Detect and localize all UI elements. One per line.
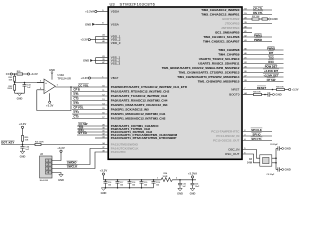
svg-text:CC: CC [6, 72, 10, 76]
wire op-amp pin 3 input [37, 82, 44, 84]
svg-text:GND: GND [85, 22, 91, 26]
capacitor C36 [192, 180, 194, 184]
ground GND below C34 [20, 151, 24, 154]
svg-text:TIM4_CH4/PB9: TIM4_CH4/PB9 [218, 53, 240, 57]
IC U3 STM32F103C8T6 body [108, 7, 242, 159]
svg-text:1: 1 [157, 177, 159, 179]
svg-text:BOOT0: BOOT0 [229, 93, 240, 97]
svg-text:TIM1_CH1N/USART3_CTS/SPI2_SCK/: TIM1_CH1N/USART3_CTS/SPI2_SCK/PB13 [179, 71, 240, 75]
wire feedback loop [37, 87, 71, 111]
svg-text:GND: GND [271, 17, 277, 21]
svg-text:PC15-OSC32_OUT: PC15-OSC32_OUT [213, 139, 240, 143]
wire divider node [14, 81, 16, 82]
svg-text:TIM1_CH3N/SPI2_MOSI/PB15: TIM1_CH3N/SPI2_MOSI/PB15 [198, 80, 240, 84]
wire net TX1 to U3 [77, 128, 108, 130]
ground GND at C8 [282, 148, 284, 150]
resistor R34 100R ferrite [160, 178, 175, 182]
capacitor C35 [179, 180, 181, 184]
svg-text:+3.3V: +3.3V [81, 76, 89, 80]
wire PB0 net CP CTL [242, 9, 272, 11]
wire VBAT pin 1 [91, 77, 109, 79]
svg-text:200K: 200K [7, 88, 12, 90]
svg-text:PA1/USART2_RTS/ADC12_IN1/TIM2_: PA1/USART2_RTS/ADC12_IN1/TIM2_CH2 [111, 90, 170, 94]
wire PA12 stub [95, 137, 108, 139]
wire J2 pin2 SWDIO to U3 PA14 [52, 149, 108, 165]
wire DOT_KEY to U3 PA13 [1, 144, 35, 146]
svg-text:C8 20pF: C8 20pF [270, 144, 279, 146]
wire net CP B to U3 [72, 91, 108, 93]
svg-text:1: 1 [57, 85, 59, 87]
svg-text:2: 2 [176, 177, 178, 179]
wire VSS feed [93, 60, 96, 62]
svg-text:TIM4_CH3/PB8: TIM4_CH3/PB8 [218, 48, 240, 52]
svg-text:104: 104 [108, 183, 111, 186]
wire VDD_2 stub [96, 39, 109, 41]
svg-text:RESET: RESET [257, 86, 267, 90]
svg-text:TIM1_CH2N/USART3_RTS/SPI2_MISO: TIM1_CH2N/USART3_RTS/SPI2_MISO/PB14 [177, 75, 240, 79]
svg-text:+3.3VA: +3.3VA [85, 10, 94, 14]
wire VDD_1 stub [96, 35, 109, 37]
resistor R35 pullup [277, 88, 285, 90]
svg-text:R37 10K: R37 10K [252, 16, 260, 18]
wire R35 to +3.3V [285, 89, 289, 91]
svg-text:USART3_TX/I2C2_SCL/PB10: USART3_TX/I2C2_SCL/PB10 [199, 57, 240, 61]
svg-text:+3.3V: +3.3V [46, 103, 54, 107]
wire OSC_IN to crystal [242, 150, 260, 159]
svg-text:CT2: CT2 [74, 97, 80, 101]
svg-text:104: 104 [132, 183, 135, 186]
svg-text:GND: GND [49, 68, 55, 72]
ground GND at BOOT0 [273, 94, 275, 96]
svg-text:R91: R91 [17, 71, 22, 73]
wire PB13 net +3.3VK INT [242, 72, 284, 74]
wire VDD feed [90, 39, 95, 41]
capacitor C17 decoupling [117, 179, 119, 181]
capacitor C33 [24, 83, 26, 85]
svg-text:CT5: CT5 [74, 115, 80, 119]
svg-text:+3.3VA: +3.3VA [188, 171, 197, 175]
svg-text:10nF: 10nF [195, 186, 200, 188]
wire NRST net RESET [242, 89, 277, 91]
wire PB15 net CP SW [242, 81, 284, 83]
wire net CT3 to U3 [72, 104, 108, 106]
svg-text:CP B: CP B [74, 88, 80, 92]
wire R91 to +3.3V [23, 73, 28, 75]
capacitor C34 [22, 145, 24, 147]
crystal X3 24M [260, 155, 272, 166]
wire port to R30 [22, 128, 24, 135]
svg-text:24M: 24M [247, 160, 252, 164]
svg-text:SL4-030: SL4-030 [40, 179, 49, 182]
ground GND at PB2 [268, 18, 269, 20]
svg-text:NRST: NRST [231, 88, 239, 92]
power port +3.3V at op-amp V- [49, 93, 51, 101]
svg-text:PWM3: PWM3 [267, 46, 276, 50]
svg-text:TX3: TX3 [269, 55, 274, 59]
svg-text:J2: J2 [40, 152, 43, 156]
svg-text:TIM1_BKIN/USART3_CK/I2C2_SMBAL: TIM1_BKIN/USART3_CK/I2C2_SMBAL/SPI2_NSS/… [162, 66, 240, 70]
resistor R30 [21, 136, 23, 142]
wire cap vertical rail [275, 149, 277, 170]
svg-text:-: - [45, 89, 46, 92]
svg-text:TIM4_CH1/I2C1_SCL/PB6: TIM4_CH1/I2C1_SCL/PB6 [203, 35, 239, 39]
wire net RX1 to U3 [77, 131, 108, 133]
wire crystal to cap rail bottom [272, 162, 276, 164]
svg-text:PA2/USART2_TX/ADC12_IN2/TIM2_C: PA2/USART2_TX/ADC12_IN2/TIM2_CH3 [111, 94, 168, 98]
wire crystal to cap rail top [272, 157, 276, 159]
svg-text:1uF: 1uF [183, 186, 187, 188]
svg-text:PA3/USART2_RX/ADC12_IN3/TIM2_C: PA3/USART2_RX/ADC12_IN3/TIM2_CH4 [111, 99, 168, 103]
wire rail caps to R34 [154, 179, 160, 181]
svg-text:+3.3V: +3.3V [57, 146, 65, 150]
wire net CC SW to U3 [77, 125, 108, 127]
wire VDD_3 stub [96, 42, 109, 44]
svg-text:VSS_3: VSS_3 [111, 62, 121, 66]
svg-text:+3.3V: +3.3V [19, 122, 27, 126]
svg-text:I2C1_SMBAI/PB5: I2C1_SMBAI/PB5 [215, 31, 240, 35]
wire PB8 net PWM3 [242, 49, 284, 51]
svg-text:CP CTL: CP CTL [253, 6, 263, 10]
wire VSS vertical bus [95, 58, 97, 64]
svg-text:JTDO/PB3: JTDO/PB3 [225, 22, 240, 26]
power port +3.3VA at analog rail [192, 178, 194, 180]
wire VSS_1 stub [96, 57, 109, 59]
svg-text:+3.3V: +3.3V [100, 169, 108, 173]
svg-text:CT3: CT3 [74, 101, 80, 105]
wire op-amp output pin 1 to PA0 [55, 86, 108, 88]
svg-text:JNTRST/PB4: JNTRST/PB4 [221, 26, 240, 30]
svg-text:GND: GND [285, 147, 291, 151]
wire CC node [12, 73, 17, 75]
svg-text:VDD_3: VDD_3 [111, 41, 121, 45]
svg-text:SPI IO: SPI IO [253, 132, 261, 136]
wire PB7 net PWM2 [242, 41, 272, 43]
wire PB3 [242, 23, 272, 25]
wire PB14 net +3.3VK DET [242, 76, 284, 78]
svg-text:R34: R34 [164, 172, 169, 175]
ground GND at J2 pin4 [59, 174, 63, 177]
capacitor C16 decoupling [105, 179, 107, 181]
wire PB4 stub [242, 27, 252, 29]
connector J2 pin 1 [45, 159, 51, 162]
wire R31 to U3 [41, 144, 108, 146]
svg-text:PA7/SPI1_MOSI/ADC12_IN7/TIM3_C: PA7/SPI1_MOSI/ADC12_IN7/TIM3_CH2 [111, 117, 166, 121]
resistor R36 on BOOT0 [254, 93, 262, 95]
wire op-amp pin 2 input [37, 89, 44, 91]
capacitor C18 decoupling [129, 179, 131, 181]
ground GND below C36 [190, 188, 194, 191]
wire net CT1 to U3 [72, 95, 108, 97]
resistor R37 on PB2 [242, 18, 252, 20]
svg-text:GND: GND [177, 192, 183, 196]
svg-text:USART3_RX/I2C2_SDA/PB11: USART3_RX/I2C2_SDA/PB11 [198, 62, 240, 66]
resistor R91 [17, 73, 23, 75]
resistor R38 on PB2 [259, 18, 262, 20]
svg-text:100R: 100R [163, 176, 168, 178]
wire VSS_2 stub [96, 60, 109, 62]
svg-text:+3.3VK DET: +3.3VK DET [263, 73, 279, 77]
svg-text:10K: 10K [25, 140, 29, 142]
svg-text:SPI CT1: SPI CT1 [251, 137, 262, 141]
svg-text:DN CTL: DN CTL [253, 11, 263, 15]
wire decoupling top rail [104, 179, 160, 181]
svg-text:104: 104 [144, 183, 147, 186]
svg-text:R31 100R: R31 100R [35, 141, 44, 143]
svg-text:PA4/SPI1_NSS/USART2_CK/ADC12_I: PA4/SPI1_NSS/USART2_CK/ADC12_IN4 [111, 103, 168, 107]
wire PB6 net PWM1 [242, 36, 272, 38]
svg-text:GND: GND [101, 191, 107, 195]
ground GND at C9 [282, 169, 284, 171]
wire net BT CH to U3 [77, 134, 108, 136]
wire PB10 net TX3 [242, 58, 284, 60]
svg-text:TIM3_CH4/ADC12_IN9/PB1: TIM3_CH4/ADC12_IN9/PB1 [201, 13, 240, 17]
svg-text:104: 104 [156, 183, 159, 186]
power port +3.3V pullup [27, 73, 29, 75]
connector J2 pin 4 [45, 171, 51, 174]
wire VDDA pin 9 [97, 11, 108, 13]
svg-text:PA5/SPI1_SCK/ADC12_IN5: PA5/SPI1_SCK/ADC12_IN5 [111, 108, 149, 112]
wire VDD vertical bus [95, 36, 97, 43]
svg-text:VDDA: VDDA [111, 10, 119, 14]
svg-text:RX3: RX3 [268, 60, 274, 64]
svg-text:PWM2: PWM2 [254, 38, 263, 42]
svg-text:CP VOL: CP VOL [74, 106, 84, 110]
wire BOOT0 [242, 94, 254, 96]
wire VSSA pin 8 [95, 23, 108, 25]
svg-text:R35 10K: R35 10K [276, 86, 284, 88]
svg-text:+3.3VK INT: +3.3VK INT [264, 69, 278, 73]
svg-text:SPI CLK: SPI CLK [251, 128, 262, 132]
wire J2 pin1 to +3.3V [52, 152, 61, 160]
svg-text:OSC_OUT: OSC_OUT [225, 152, 240, 156]
svg-text:1uF: 1uF [25, 149, 29, 151]
svg-text:CT1: CT1 [74, 92, 80, 96]
wire J2 pin4 to ground [52, 173, 61, 175]
svg-text:CP SW: CP SW [267, 78, 276, 82]
op-amp U10A triangle [44, 79, 55, 94]
svg-text:GND: GND [275, 93, 281, 97]
capacitor C110 decoupling [153, 179, 155, 181]
wire PC13 net SPI CLK [242, 131, 272, 133]
power port +3.3V at NRST [289, 88, 291, 90]
wire net CT5 to U3 [72, 118, 108, 120]
svg-text:BT CH: BT CH [79, 131, 87, 135]
svg-text:C9 20pF: C9 20pF [267, 174, 276, 176]
svg-text:VBAT: VBAT [111, 76, 119, 80]
connector J2 pin 2 [45, 163, 51, 166]
svg-text:TIM3_CH3/ADC12_IN8/PB0: TIM3_CH3/ADC12_IN8/PB0 [201, 8, 240, 12]
svg-text:+3.3V: +3.3V [80, 38, 88, 42]
wire PC15 net SPI CT1 [242, 140, 272, 142]
resistor R93 [14, 83, 16, 85]
wire decoupling bottom rail [104, 187, 154, 189]
power port +3.3V at J2 [60, 150, 62, 152]
wire +3.3V to rail [103, 175, 105, 180]
wire J2 pin3 SWCLK to U3 PA15 [52, 152, 108, 169]
svg-text:GND: GND [58, 178, 64, 182]
svg-text:GND: GND [17, 97, 23, 101]
svg-text:OSC_IN: OSC_IN [228, 148, 239, 152]
wire PB1 net DN CTL [242, 14, 272, 16]
svg-text:PC13-TAMPER-RTC: PC13-TAMPER-RTC [211, 130, 240, 134]
svg-text:CC VOL: CC VOL [78, 83, 89, 87]
svg-text:POW DET: POW DET [265, 64, 278, 68]
svg-text:PWM1: PWM1 [254, 33, 263, 37]
wire OSC_OUT to crystal [242, 154, 260, 163]
svg-text:CT4: CT4 [74, 110, 80, 114]
svg-text:R36 10K: R36 10K [253, 91, 261, 93]
wire PC14 net SPI IO [242, 135, 272, 137]
capacitor C8 [276, 148, 278, 150]
svg-text:+3.3V: +3.3V [292, 88, 299, 92]
capacitor C9 [276, 169, 278, 171]
capacitor C37 on BOOT0 [267, 92, 269, 96]
svg-text:STM32F103C8T6: STM32F103C8T6 [120, 1, 156, 6]
ground GND at decoupling bank [101, 188, 105, 191]
svg-text:VSSA: VSSA [111, 22, 119, 26]
svg-text:U3: U3 [110, 1, 116, 6]
wire R30 to key node [22, 141, 24, 144]
wire R36 to ground [262, 94, 269, 96]
svg-text:PA6/SPI1_MISO/ADC12_IN6/TIM3_C: PA6/SPI1_MISO/ADC12_IN6/TIM3_CH1 [111, 112, 166, 116]
ground GND below C35 [178, 188, 182, 191]
wire PB12 net POW DET [242, 67, 284, 69]
svg-text:SWCLK: SWCLK [67, 165, 77, 169]
resistor R31 inline [35, 143, 41, 145]
wire to ground rail [14, 90, 16, 93]
svg-text:104: 104 [120, 183, 123, 186]
wire PB9 net INT [242, 54, 284, 56]
svg-text:+3.3V: +3.3V [30, 72, 38, 76]
svg-text:GND: GND [20, 155, 26, 159]
wire PB11 net RX3 [242, 63, 284, 65]
svg-text:TIM4_CH2/I2C1_SDA/PB7: TIM4_CH2/I2C1_SDA/PB7 [203, 40, 240, 44]
wire PB5 stub [242, 32, 252, 34]
svg-text:GND: GND [285, 168, 291, 172]
svg-text:10K: 10K [9, 80, 13, 82]
svg-text:INT: INT [269, 51, 274, 55]
wire net CT2 to U3 [72, 100, 108, 102]
resistor R92 [14, 74, 16, 76]
wire net CT4 to U3 [72, 113, 108, 115]
wire R34 to +3.3VA node [175, 179, 197, 181]
wire VSS_3 stub [96, 63, 109, 65]
ground GND below divider [17, 93, 21, 96]
svg-text:GND: GND [190, 192, 196, 196]
capacitor C19 decoupling [141, 179, 143, 181]
svg-text:TP1124-SR: TP1124-SR [58, 76, 72, 80]
connector J2 pin 3 [45, 167, 51, 170]
svg-text:BOOT1/PB2: BOOT1/PB2 [222, 17, 239, 21]
svg-text:1uF: 1uF [27, 87, 31, 89]
wire net CP VOL to U3 [72, 109, 108, 111]
svg-text:PA0/WKUP/USART2_CTS/ADC12_IN0/: PA0/WKUP/USART2_CTS/ADC12_IN0/TIM2_CH1_E… [111, 85, 188, 89]
svg-text:GND: GND [83, 59, 89, 63]
svg-text:PA12/USART1_RTS/CANTX/TIM1_ETR: PA12/USART1_RTS/CANTX/TIM1_ETR/USBDP [111, 136, 177, 140]
svg-text:PC14-OSC32_IN: PC14-OSC32_IN [216, 134, 239, 138]
svg-text:X3: X3 [249, 157, 253, 161]
svg-text:PA15/JTDI: PA15/JTDI [111, 150, 126, 154]
